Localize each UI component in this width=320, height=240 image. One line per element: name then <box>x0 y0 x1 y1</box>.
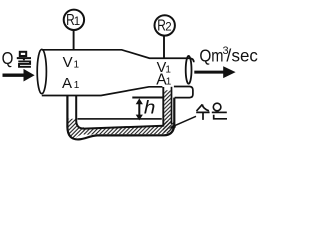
label A1 right <box>156 72 172 89</box>
mercury label leader arrowhead <box>169 123 176 128</box>
label V1 right <box>157 60 172 76</box>
mercury hatch right corner <box>163 121 174 134</box>
svg-text:2: 2 <box>165 21 171 33</box>
label A1 left <box>62 75 80 92</box>
manometer outer wall (left leg outer, bottom outer, right outer) <box>67 96 174 139</box>
svg-text:A: A <box>62 75 72 92</box>
svg-text:1: 1 <box>166 77 172 88</box>
svg-text:Q: Q <box>2 48 14 68</box>
manometer right leg right wall <box>171 87 173 124</box>
pipe bottom edge right collar <box>174 87 193 98</box>
dimension arrow h <box>136 98 143 120</box>
label V1 left <box>63 54 80 71</box>
manometer right leg left wall <box>162 87 164 127</box>
svg-text:V: V <box>63 54 73 71</box>
mercury hatch left leg bore and left corner <box>68 119 84 139</box>
gauge R2 stem wire <box>163 36 165 59</box>
label Q m3/sec <box>199 45 258 66</box>
label su-eun (mercury) hangul <box>196 103 227 120</box>
mercury hatch right leg column <box>164 90 171 127</box>
label Q water inflow <box>2 48 14 68</box>
gauge R2 label <box>157 17 171 34</box>
pipe bottom edge (wide + converging) <box>42 87 163 96</box>
pipe outlet ellipse <box>186 56 192 84</box>
svg-text:Q: Q <box>199 45 211 65</box>
pipe top edge <box>42 50 194 63</box>
gauge R1 circle <box>64 10 84 30</box>
svg-text:1: 1 <box>74 80 80 91</box>
gauge R2 circle <box>155 15 175 35</box>
outflow arrow <box>194 66 235 78</box>
mercury hatch bottom band <box>83 126 171 135</box>
mercury surface line in reservoir <box>78 118 162 120</box>
pipe inlet ellipse <box>37 49 46 93</box>
gauge R1 label <box>66 12 80 29</box>
gauge R1 stem wire <box>73 30 75 50</box>
svg-text:1: 1 <box>74 16 80 28</box>
manometer inner wall (left leg inner + bottom inner) <box>76 96 163 129</box>
svg-text:1: 1 <box>74 60 80 71</box>
inflow arrow <box>3 69 35 82</box>
mercury level reference line (right leg) <box>132 97 163 99</box>
label mul (water) hangul <box>17 52 31 67</box>
mercury label leader line <box>171 116 196 127</box>
svg-text:sec: sec <box>232 45 259 65</box>
svg-text:h: h <box>144 97 156 118</box>
